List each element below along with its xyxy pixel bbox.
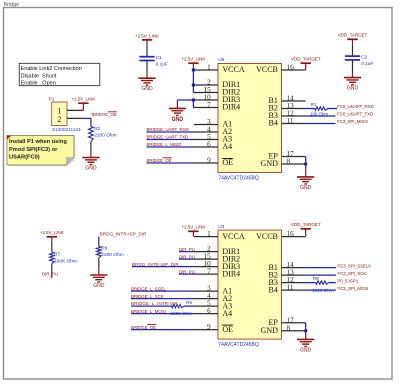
- svg-text:GND: GND: [300, 347, 312, 353]
- ground at U6 EP: [297, 176, 314, 178]
- resistor R7: [51, 241, 53, 252]
- svg-text:GND: GND: [300, 185, 312, 191]
- svg-text:0.1uF: 0.1uF: [361, 61, 373, 67]
- wire net BRIDGE_UART_TXD: [147, 139, 195, 141]
- wire gnd to pins 10 7: [177, 99, 193, 101]
- U6 pin 13 B2: [282, 108, 306, 110]
- U3 pin 5 A3: [194, 305, 218, 307]
- wire FC3_SPI_SCK: [306, 274, 336, 276]
- wire net BRDG_INTR-ISP_DIR: [132, 266, 194, 268]
- svg-text:GND: GND: [261, 159, 279, 168]
- U6 pin 6 A4: [194, 146, 218, 148]
- svg-text:Install P1 when using: Install P1 when using: [9, 139, 67, 145]
- svg-text:GND: GND: [172, 117, 184, 123]
- U6 pin 5 A3: [194, 139, 218, 141]
- U6 pin 12 B3: [282, 115, 306, 117]
- svg-text:GND: GND: [85, 166, 97, 172]
- wire pin2 to R2: [83, 117, 91, 119]
- svg-text:VDD_TARGET: VDD_TARGET: [291, 57, 321, 62]
- svg-text:Pmod SPI(FC3) or: Pmod SPI(FC3) or: [9, 147, 58, 153]
- svg-text:11: 11: [287, 284, 294, 292]
- svg-text:BRIDGE_L_INTR-ISP: BRIDGE_L_INTR-ISP: [131, 301, 178, 306]
- U6 pin 1 VCCA: [194, 69, 218, 71]
- svg-text:VCCA: VCCA: [222, 65, 244, 74]
- svg-text:74AVC4TD245BQ: 74AVC4TD245BQ: [218, 176, 259, 182]
- svg-text:VDD_TARGET: VDD_TARGET: [291, 222, 321, 227]
- svg-text:6: 6: [207, 141, 211, 149]
- U6 pin 14 B1: [282, 100, 306, 102]
- svg-text:1: 1: [207, 64, 211, 72]
- svg-text:GND: GND: [93, 283, 105, 289]
- sticky note: [9, 137, 76, 166]
- ground: [344, 77, 361, 79]
- U6 pin 16 VCCB: [282, 69, 306, 71]
- U3 pin 14 B1: [282, 267, 306, 269]
- svg-text:8: 8: [287, 158, 291, 166]
- note box: jumper legend: [19, 63, 100, 85]
- ground at U3 EP: [297, 338, 314, 340]
- svg-text:OE: OE: [222, 158, 233, 167]
- wire FC3_SPI_SSEL0: [306, 267, 336, 269]
- wire net BRIDGE_L_SCK: [131, 298, 194, 300]
- svg-text:USAR(FC0): USAR(FC0): [9, 154, 40, 160]
- U3 pin 1 VCCA: [194, 236, 218, 238]
- U3 pin 9 OE: [194, 329, 218, 331]
- resistor R8: [306, 282, 316, 284]
- wire net DIR_PU: [179, 258, 194, 260]
- svg-text:FC3_SPI_SCK: FC3_SPI_SCK: [337, 271, 366, 276]
- wire net BRIDGE_OE: [131, 329, 194, 331]
- U6 pin 15 DIR2: [194, 92, 218, 94]
- resistor R9: [172, 304, 185, 307]
- U3 pin 6 A4: [194, 313, 218, 315]
- U6 pin 4 A2: [194, 131, 218, 133]
- U3 pin 7 DIR4: [194, 273, 218, 275]
- wire EP GND to ground: [305, 157, 307, 166]
- svg-text:BRIDGE_OE: BRIDGE_OE: [147, 158, 172, 163]
- svg-text:9: 9: [207, 157, 211, 165]
- svg-text:FC3_SPI_MISO: FC3_SPI_MISO: [337, 119, 368, 124]
- svg-text:BRIDGE_L_MOSI: BRIDGE_L_MOSI: [131, 309, 166, 314]
- svg-text:B4: B4: [269, 285, 278, 294]
- junction on pin2: [192, 83, 195, 86]
- wire net DIR_PU: [179, 251, 194, 253]
- svg-text:61300211121: 61300211121: [52, 127, 81, 133]
- svg-text:16: 16: [287, 64, 295, 72]
- svg-text:FC0_USART_TXD: FC0_USART_TXD: [337, 112, 374, 117]
- wire FC0_USART_TXD: [306, 115, 336, 117]
- U6 pin 8 GND: [282, 163, 306, 165]
- junction on pin1: [192, 68, 195, 71]
- U6 pin 17 EP: [282, 156, 306, 158]
- svg-text:DIR4: DIR4: [222, 103, 240, 112]
- svg-text:BRIDGE_OE: BRIDGE_OE: [131, 325, 156, 330]
- wire DIR_PU at R7: [51, 273, 53, 278]
- svg-text:8: 8: [287, 324, 291, 332]
- wire net BRIDGE_L_MOSI: [131, 313, 194, 315]
- U3 pin 12 B3: [282, 282, 306, 284]
- svg-text:R1: R1: [311, 102, 317, 107]
- pin 1 stub: [67, 109, 83, 111]
- svg-text:2200 Ohm: 2200 Ohm: [101, 252, 123, 258]
- svg-text:DIR4: DIR4: [222, 269, 240, 278]
- wire FC3_SPI_MOSI: [306, 289, 336, 291]
- svg-text:11: 11: [287, 117, 294, 125]
- svg-text:+2.5V_LINK: +2.5V_LINK: [40, 230, 65, 235]
- svg-text:+2.5V_LINK: +2.5V_LINK: [71, 97, 96, 102]
- wire power to pins 1 2 15: [192, 67, 194, 92]
- svg-text:GND: GND: [347, 86, 359, 92]
- wire net BRIDGE_L_SSEL: [131, 290, 194, 292]
- svg-text:VCCB: VCCB: [256, 65, 278, 74]
- svg-text:BRIDGE_UART_TXD: BRIDGE_UART_TXD: [147, 135, 189, 140]
- ground below R2: [82, 157, 99, 159]
- wire FC3_SPI_MISO: [306, 123, 336, 125]
- svg-text:BRDG_INTR-ISP_DIR: BRDG_INTR-ISP_DIR: [100, 231, 147, 236]
- svg-text:P1: P1: [49, 96, 55, 102]
- svg-text:BRIDGE_L_SSEL: BRIDGE_L_SSEL: [131, 286, 166, 291]
- svg-text:Enable Link2 Connection: Enable Link2 Connection: [21, 66, 82, 72]
- U6 pin 2 DIR1: [194, 84, 218, 86]
- U3 pin 15 DIR2: [194, 258, 218, 260]
- U3 pin 11 B4: [282, 289, 306, 291]
- U3 pin 8 GND: [282, 330, 306, 332]
- svg-text:C1: C1: [156, 55, 162, 61]
- wire net BRIDGE_L_MISO: [147, 146, 195, 148]
- U3 pin 13 B2: [282, 274, 306, 276]
- svg-text:+2.5V_LINK: +2.5V_LINK: [181, 225, 206, 230]
- svg-text:74AVC4TD245BQ: 74AVC4TD245BQ: [218, 342, 259, 348]
- U6 pin 3 A1: [194, 124, 218, 126]
- svg-text:P0_5-ISP1: P0_5-ISP1: [337, 278, 358, 283]
- svg-text:+2.5V_LINK: +2.5V_LINK: [135, 33, 160, 38]
- svg-text:OE: OE: [222, 325, 233, 334]
- resistor R1: [306, 108, 315, 110]
- U3 pin 16 VCCB: [282, 236, 306, 238]
- svg-text:FC3_SPI_MOSI: FC3_SPI_MOSI: [337, 286, 368, 291]
- svg-text:C2: C2: [361, 55, 367, 61]
- svg-text:VCCA: VCCA: [222, 232, 244, 241]
- svg-text:VDD_TARGET: VDD_TARGET: [338, 33, 368, 38]
- svg-text:BRIDGE_L_SCK: BRIDGE_L_SCK: [131, 294, 164, 299]
- ground below R6: [90, 274, 107, 276]
- svg-text:GND: GND: [141, 86, 153, 92]
- U3 pin 17 EP: [282, 322, 306, 324]
- svg-text:BRIDGE_UART_RXD: BRIDGE_UART_RXD: [147, 127, 190, 132]
- svg-text:+2.5V_LINK: +2.5V_LINK: [181, 57, 206, 62]
- svg-text:A4: A4: [222, 142, 232, 151]
- ground at U6 DIR3 DIR4: [169, 107, 186, 109]
- U3 pin 3 A1: [194, 290, 218, 292]
- svg-text:R7: R7: [54, 251, 60, 257]
- svg-text:R2: R2: [94, 126, 100, 132]
- wire net DIR_PU: [179, 273, 194, 275]
- svg-text:FC0_USART_RXD: FC0_USART_RXD: [337, 104, 374, 109]
- ground: [138, 77, 155, 79]
- pin 2 stub: [67, 117, 83, 119]
- svg-text:0.1uF: 0.1uF: [156, 62, 168, 68]
- svg-text:16: 16: [287, 230, 295, 238]
- svg-text:6: 6: [207, 307, 211, 315]
- svg-text:U3: U3: [218, 224, 224, 230]
- svg-text:7: 7: [207, 268, 211, 276]
- U6 pin 7 DIR4: [194, 107, 218, 109]
- svg-text:B4: B4: [269, 119, 278, 128]
- U3 pin 10 DIR3: [194, 266, 218, 268]
- junction gnd wire: [192, 98, 195, 101]
- svg-text:A4: A4: [222, 309, 232, 318]
- svg-text:Enable Open: Enable Open: [21, 81, 56, 87]
- U6 pin 9 OE: [194, 162, 218, 164]
- svg-text:BRIDGE_L_MISO: BRIDGE_L_MISO: [147, 142, 182, 147]
- resistor R6: [98, 242, 100, 247]
- svg-text:R8: R8: [313, 276, 319, 281]
- svg-text:GND: GND: [261, 326, 279, 335]
- U6 pin 10 DIR3: [194, 99, 218, 101]
- svg-text:FC3_SPI_SSEL0: FC3_SPI_SSEL0: [337, 263, 371, 268]
- svg-text:17: 17: [287, 316, 295, 324]
- svg-text:100K Ohm: 100K Ohm: [54, 258, 77, 264]
- svg-text:BRIDGE_OE: BRIDGE_OE: [92, 112, 117, 117]
- svg-text:DIR_PU: DIR_PU: [179, 254, 195, 259]
- svg-text:DIR_PU: DIR_PU: [42, 272, 58, 277]
- svg-text:DIR_PU: DIR_PU: [179, 247, 195, 252]
- svg-text:DIR_PU: DIR_PU: [179, 269, 195, 274]
- svg-text:2: 2: [57, 115, 61, 124]
- capacitor C2: [352, 45, 354, 57]
- svg-text:U6: U6: [218, 57, 224, 63]
- U3 pin 4 A2: [194, 298, 218, 300]
- resistor R2: [90, 118, 92, 126]
- wire at R6 top: [98, 237, 100, 242]
- wire net BRIDGE_UART_RXD: [147, 131, 195, 133]
- capacitor C1: [146, 45, 148, 57]
- U6 pin 11 B4: [282, 123, 306, 125]
- wire U3 EP GND to ground: [305, 323, 307, 333]
- svg-text:BRDG_INTR-ISP_DIR: BRDG_INTR-ISP_DIR: [132, 262, 179, 267]
- svg-text:9: 9: [207, 323, 211, 331]
- U3 pin 2 DIR1: [194, 251, 218, 253]
- svg-text:Disable Shunt: Disable Shunt: [21, 73, 57, 79]
- svg-text:VCCB: VCCB: [256, 232, 278, 241]
- wire net BRIDGE_OE: [147, 162, 195, 164]
- svg-text:1: 1: [207, 230, 211, 238]
- svg-text:R9: R9: [186, 300, 192, 305]
- svg-text:2200 Ohm: 2200 Ohm: [94, 133, 116, 139]
- svg-text:R6: R6: [101, 245, 107, 251]
- svg-text:7: 7: [207, 101, 211, 109]
- wire BRIDGE_L_INTR-ISP: [131, 305, 172, 307]
- svg-text:2200 Ohm: 2200 Ohm: [312, 288, 334, 293]
